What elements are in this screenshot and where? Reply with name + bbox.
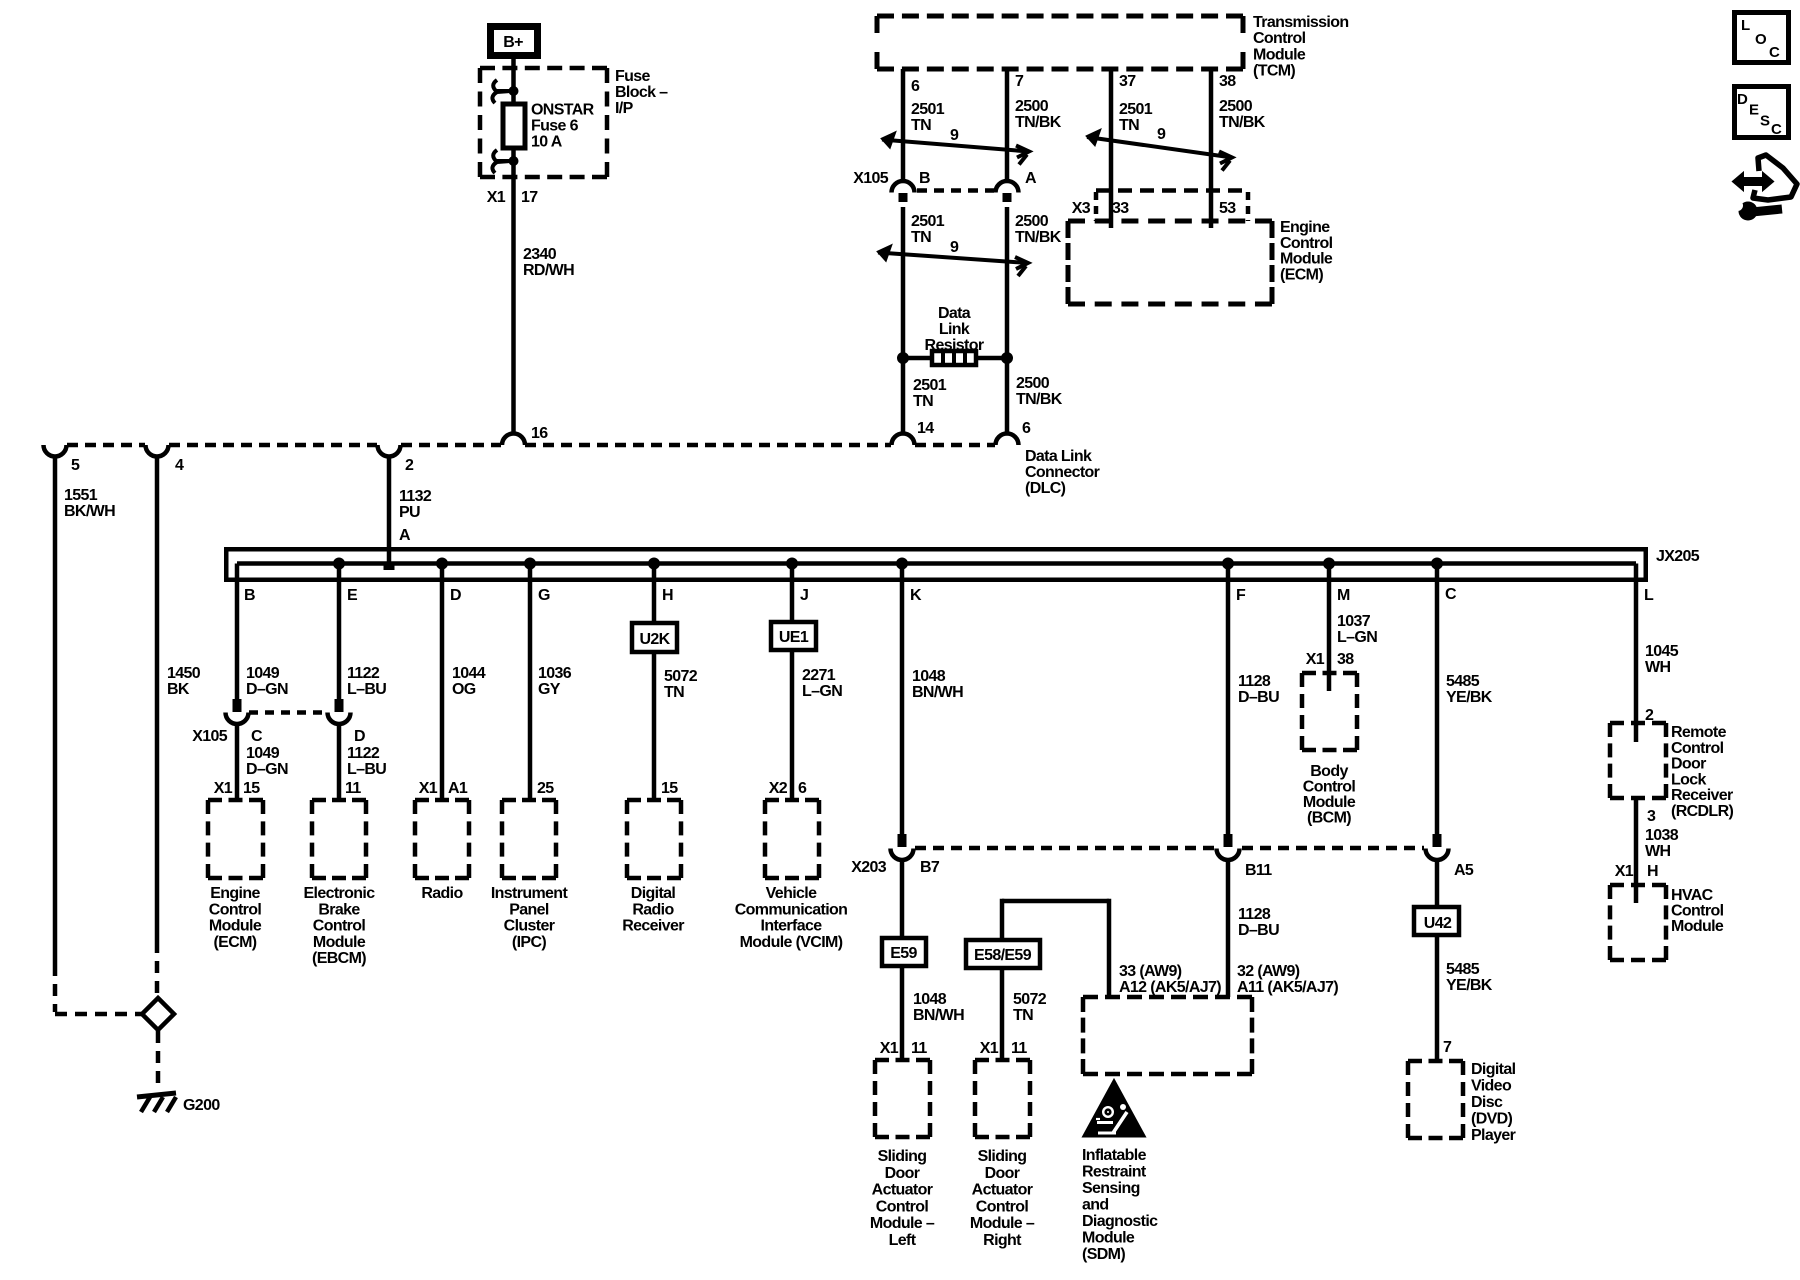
svg-text:B7: B7 <box>920 859 940 876</box>
svg-text:3: 3 <box>1647 808 1656 825</box>
svg-text:17: 17 <box>521 189 538 206</box>
svg-text:11: 11 <box>345 780 361 797</box>
svg-text:37: 37 <box>1119 73 1136 90</box>
svg-text:TN: TN <box>911 117 931 134</box>
svg-text:G: G <box>538 587 550 604</box>
svg-text:Cluster: Cluster <box>504 918 555 935</box>
svg-text:Receiver: Receiver <box>1671 787 1733 804</box>
svg-text:Module: Module <box>1280 251 1333 268</box>
svg-text:2501: 2501 <box>1119 101 1153 118</box>
svg-text:L–GN: L–GN <box>802 683 842 700</box>
svg-text:(SDM): (SDM) <box>1082 1246 1125 1263</box>
svg-text:X1: X1 <box>1615 863 1634 880</box>
svg-text:X1: X1 <box>980 1040 999 1057</box>
svg-text:Control: Control <box>209 901 262 918</box>
svg-text:U42: U42 <box>1424 915 1452 932</box>
svg-text:BK: BK <box>167 681 190 698</box>
svg-text:I/P: I/P <box>615 100 634 117</box>
svg-text:X1: X1 <box>1306 651 1325 668</box>
svg-text:2500: 2500 <box>1015 98 1049 115</box>
svg-text:TN/BK: TN/BK <box>1016 391 1063 408</box>
svg-text:Control: Control <box>1671 740 1724 757</box>
svg-text:Module: Module <box>1303 794 1356 811</box>
svg-text:BK/WH: BK/WH <box>64 503 115 520</box>
svg-text:D: D <box>450 587 461 604</box>
svg-text:WH: WH <box>1645 843 1670 860</box>
svg-text:1122: 1122 <box>347 745 380 762</box>
svg-text:(ECM): (ECM) <box>1280 266 1323 283</box>
svg-text:Body: Body <box>1310 763 1348 780</box>
svg-text:Instrument: Instrument <box>491 885 569 902</box>
svg-text:F: F <box>1236 587 1246 604</box>
svg-text:Engine: Engine <box>1280 219 1330 236</box>
svg-text:Module: Module <box>209 918 262 935</box>
svg-text:A1: A1 <box>448 780 468 797</box>
svg-text:Module: Module <box>1253 46 1306 63</box>
svg-text:33 (AW9): 33 (AW9) <box>1119 963 1182 980</box>
svg-text:Control: Control <box>313 918 366 935</box>
svg-text:C: C <box>1445 586 1457 603</box>
svg-text:2501: 2501 <box>911 101 945 118</box>
svg-text:11: 11 <box>911 1040 927 1057</box>
svg-text:1049: 1049 <box>246 745 280 762</box>
svg-text:Brake: Brake <box>318 901 360 918</box>
svg-text:X3: X3 <box>1072 200 1091 217</box>
svg-text:Transmission: Transmission <box>1253 14 1348 31</box>
svg-text:Module –: Module – <box>970 1215 1035 1232</box>
svg-text:14: 14 <box>917 420 934 437</box>
svg-text:(DVD): (DVD) <box>1471 1111 1513 1128</box>
svg-text:(BCM): (BCM) <box>1307 810 1351 827</box>
svg-text:33: 33 <box>1112 200 1129 217</box>
svg-text:1551: 1551 <box>64 487 98 504</box>
svg-text:1048: 1048 <box>913 991 947 1008</box>
svg-text:Module –: Module – <box>870 1215 935 1232</box>
svg-text:1049: 1049 <box>246 665 280 682</box>
svg-text:11: 11 <box>1011 1040 1027 1057</box>
svg-text:2500: 2500 <box>1016 375 1050 392</box>
svg-text:1128: 1128 <box>1238 673 1271 690</box>
svg-text:TN/BK: TN/BK <box>1015 229 1062 246</box>
svg-text:Receiver: Receiver <box>622 918 684 935</box>
svg-text:Digital: Digital <box>631 885 676 902</box>
svg-text:L–BU: L–BU <box>347 761 386 778</box>
svg-text:2500: 2500 <box>1015 213 1049 230</box>
svg-text:X1: X1 <box>880 1040 899 1057</box>
svg-text:B: B <box>244 587 255 604</box>
svg-text:D–BU: D–BU <box>1238 922 1279 939</box>
svg-text:Digital: Digital <box>1471 1061 1516 1078</box>
svg-text:Actuator: Actuator <box>972 1182 1033 1199</box>
svg-text:D–BU: D–BU <box>1238 689 1279 706</box>
svg-text:Control: Control <box>1303 779 1356 796</box>
svg-text:Door: Door <box>1671 756 1706 773</box>
svg-text:L–BU: L–BU <box>347 681 386 698</box>
svg-text:A5: A5 <box>1454 862 1474 879</box>
svg-text:L: L <box>1644 587 1654 604</box>
svg-text:Interface: Interface <box>761 918 823 935</box>
svg-text:E: E <box>1749 102 1759 119</box>
svg-text:D–GN: D–GN <box>246 761 288 778</box>
svg-text:15: 15 <box>243 780 260 797</box>
svg-text:TN: TN <box>913 393 933 410</box>
svg-text:2500: 2500 <box>1219 98 1253 115</box>
svg-text:Module: Module <box>1671 918 1724 935</box>
svg-text:Control: Control <box>876 1198 929 1215</box>
svg-text:10 A: 10 A <box>531 134 563 151</box>
svg-text:TN: TN <box>1119 117 1139 134</box>
svg-text:O: O <box>1755 31 1767 48</box>
svg-text:(ECM): (ECM) <box>213 934 256 951</box>
svg-text:YE/BK: YE/BK <box>1446 977 1493 994</box>
svg-text:Engine: Engine <box>210 885 260 902</box>
svg-text:J: J <box>800 587 808 604</box>
svg-text:1036: 1036 <box>538 665 572 682</box>
svg-text:2271: 2271 <box>802 667 836 684</box>
svg-text:7: 7 <box>1443 1039 1452 1056</box>
svg-text:G200: G200 <box>183 1097 220 1114</box>
svg-text:5072: 5072 <box>1013 991 1047 1008</box>
svg-text:Left: Left <box>889 1232 917 1249</box>
svg-text:6: 6 <box>798 780 807 797</box>
svg-text:16: 16 <box>531 425 548 442</box>
svg-text:M: M <box>1337 587 1350 604</box>
svg-text:C: C <box>1771 121 1782 138</box>
svg-text:OG: OG <box>452 681 476 698</box>
svg-text:C: C <box>251 728 263 745</box>
svg-text:H: H <box>662 587 673 604</box>
svg-text:Lock: Lock <box>1671 771 1707 788</box>
svg-text:K: K <box>910 587 922 604</box>
svg-text:(EBCM): (EBCM) <box>312 950 366 967</box>
svg-text:Right: Right <box>983 1232 1022 1249</box>
svg-text:L: L <box>1741 17 1750 34</box>
svg-text:Control: Control <box>1253 30 1306 47</box>
svg-text:Fuse: Fuse <box>615 68 651 85</box>
svg-text:9: 9 <box>950 127 959 144</box>
svg-text:1122: 1122 <box>347 665 380 682</box>
svg-text:TN: TN <box>911 229 931 246</box>
svg-text:1037: 1037 <box>1337 613 1371 630</box>
svg-text:2501: 2501 <box>911 213 945 230</box>
svg-text:Panel: Panel <box>509 901 549 918</box>
svg-text:X1: X1 <box>419 780 438 797</box>
svg-text:Data: Data <box>938 305 971 322</box>
svg-text:(TCM): (TCM) <box>1253 63 1295 80</box>
svg-text:Radio: Radio <box>421 885 463 902</box>
svg-text:X105: X105 <box>192 728 228 745</box>
svg-text:WH: WH <box>1645 659 1670 676</box>
svg-text:Control: Control <box>1280 235 1333 252</box>
svg-text:1450: 1450 <box>167 665 201 682</box>
svg-text:1044: 1044 <box>452 665 486 682</box>
svg-text:25: 25 <box>537 780 554 797</box>
svg-text:Block –: Block – <box>615 84 668 101</box>
svg-text:Inflatable: Inflatable <box>1082 1147 1147 1164</box>
svg-text:Control: Control <box>1671 903 1724 920</box>
svg-text:6: 6 <box>911 78 920 95</box>
svg-text:TN/BK: TN/BK <box>1015 114 1062 131</box>
svg-text:B11: B11 <box>1245 862 1272 879</box>
svg-text:Electronic: Electronic <box>304 885 376 902</box>
svg-text:Module: Module <box>1082 1230 1135 1247</box>
svg-text:RD/WH: RD/WH <box>523 262 574 279</box>
svg-text:L–GN: L–GN <box>1337 629 1377 646</box>
svg-text:2340: 2340 <box>523 246 557 263</box>
svg-text:(RCDLR): (RCDLR) <box>1671 803 1733 820</box>
svg-text:Sensing: Sensing <box>1082 1180 1140 1197</box>
svg-text:5485: 5485 <box>1446 673 1480 690</box>
svg-text:2: 2 <box>405 457 414 474</box>
svg-text:5485: 5485 <box>1446 961 1480 978</box>
svg-text:Link: Link <box>939 321 970 338</box>
svg-text:UE1: UE1 <box>779 629 809 646</box>
svg-text:BN/WH: BN/WH <box>913 1007 964 1024</box>
svg-text:X1: X1 <box>214 780 233 797</box>
svg-text:5072: 5072 <box>664 668 698 685</box>
svg-text:Disc: Disc <box>1471 1094 1503 1111</box>
svg-text:Door: Door <box>885 1165 920 1182</box>
svg-text:Player: Player <box>1471 1127 1516 1144</box>
svg-text:E59: E59 <box>890 945 917 962</box>
svg-text:C: C <box>1769 44 1780 61</box>
svg-text:Door: Door <box>985 1165 1020 1182</box>
svg-text:S: S <box>1760 113 1770 130</box>
svg-text:PU: PU <box>399 504 420 521</box>
svg-text:Module (VCIM): Module (VCIM) <box>740 934 843 951</box>
svg-text:1132: 1132 <box>399 488 432 505</box>
svg-text:A: A <box>399 527 411 544</box>
svg-text:GY: GY <box>538 681 561 698</box>
svg-text:Sliding: Sliding <box>978 1148 1027 1165</box>
svg-text:JX205: JX205 <box>1656 548 1700 565</box>
svg-text:X2: X2 <box>769 780 788 797</box>
svg-text:E58/E59: E58/E59 <box>974 947 1032 964</box>
svg-text:Communication: Communication <box>735 901 848 918</box>
svg-text:D–GN: D–GN <box>246 681 288 698</box>
svg-text:TN: TN <box>1013 1007 1033 1024</box>
svg-text:H: H <box>1647 863 1658 880</box>
svg-text:Vehicle: Vehicle <box>766 885 817 902</box>
svg-text:5: 5 <box>71 457 80 474</box>
svg-text:ONSTAR: ONSTAR <box>531 102 595 119</box>
svg-text:Remote: Remote <box>1671 724 1727 741</box>
svg-text:53: 53 <box>1219 200 1236 217</box>
svg-text:A: A <box>1025 170 1037 187</box>
svg-text:Data Link: Data Link <box>1025 448 1092 465</box>
svg-text:1128: 1128 <box>1238 906 1271 923</box>
svg-text:1038: 1038 <box>1645 827 1679 844</box>
svg-text:Module: Module <box>313 934 366 951</box>
svg-text:(IPC): (IPC) <box>512 934 546 951</box>
svg-text:Control: Control <box>976 1198 1029 1215</box>
svg-text:B: B <box>919 170 930 187</box>
svg-text:TN/BK: TN/BK <box>1219 114 1266 131</box>
svg-text:B+: B+ <box>503 34 523 51</box>
svg-text:1048: 1048 <box>912 668 946 685</box>
svg-text:HVAC: HVAC <box>1671 887 1714 904</box>
svg-text:38: 38 <box>1337 651 1354 668</box>
svg-text:32 (AW9): 32 (AW9) <box>1237 963 1300 980</box>
svg-text:Restraint: Restraint <box>1082 1164 1147 1181</box>
svg-text:BN/WH: BN/WH <box>912 684 963 701</box>
svg-text:4: 4 <box>175 457 184 474</box>
svg-text:2501: 2501 <box>913 377 947 394</box>
svg-text:1045: 1045 <box>1645 643 1679 660</box>
svg-text:(DLC): (DLC) <box>1025 480 1066 497</box>
svg-text:YE/BK: YE/BK <box>1446 689 1493 706</box>
svg-text:15: 15 <box>661 780 678 797</box>
svg-text:38: 38 <box>1219 73 1236 90</box>
svg-text:9: 9 <box>950 239 959 256</box>
svg-text:Actuator: Actuator <box>872 1182 933 1199</box>
svg-text:X203: X203 <box>851 859 887 876</box>
svg-text:Video: Video <box>1471 1078 1512 1095</box>
svg-text:9: 9 <box>1157 126 1166 143</box>
svg-text:X1: X1 <box>487 189 506 206</box>
svg-text:D: D <box>354 728 365 745</box>
svg-text:E: E <box>347 587 358 604</box>
svg-text:Sliding: Sliding <box>878 1148 927 1165</box>
svg-text:D: D <box>1737 91 1748 108</box>
svg-text:Diagnostic: Diagnostic <box>1082 1213 1158 1230</box>
svg-text:X105: X105 <box>853 170 889 187</box>
svg-text:7: 7 <box>1015 73 1024 90</box>
svg-text:TN: TN <box>664 684 684 701</box>
svg-text:and: and <box>1082 1197 1109 1214</box>
svg-text:Radio: Radio <box>632 901 674 918</box>
svg-text:U2K: U2K <box>639 631 670 648</box>
svg-text:A12 (AK5/AJ7): A12 (AK5/AJ7) <box>1119 979 1221 996</box>
svg-text:A11 (AK5/AJ7): A11 (AK5/AJ7) <box>1237 979 1338 996</box>
svg-text:Fuse 6: Fuse 6 <box>531 118 579 135</box>
svg-text:Connector: Connector <box>1025 464 1100 481</box>
svg-text:6: 6 <box>1022 420 1031 437</box>
